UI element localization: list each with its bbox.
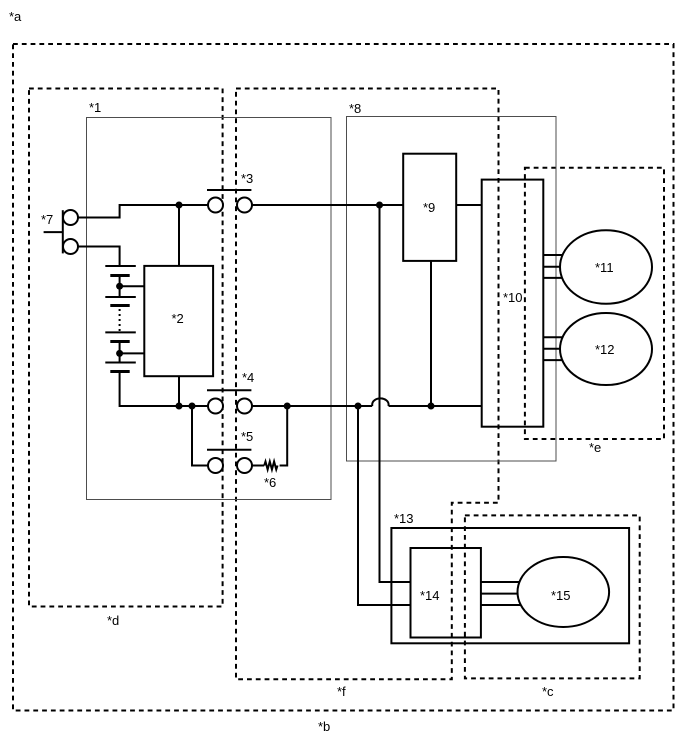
- wire: unit *14 to motor *15 (three leads): [481, 582, 522, 605]
- motor *15: [518, 557, 610, 627]
- box *14: [411, 548, 481, 638]
- node bottom rail at *9 branch: [428, 403, 435, 410]
- node bottom rail at box *2: [176, 403, 183, 410]
- svg-text:*c: *c: [542, 684, 554, 699]
- svg-text:*6: *6: [264, 475, 276, 490]
- wire: unit *10 to motor *11 (three leads): [543, 255, 566, 278]
- svg-text:*a: *a: [9, 9, 22, 24]
- connector *7: [44, 210, 78, 254]
- svg-text:*12: *12: [595, 342, 615, 357]
- box *9: [403, 154, 456, 261]
- svg-text:*d: *d: [107, 613, 119, 628]
- svg-text:*3: *3: [241, 171, 253, 186]
- wire hop over branch line: [372, 398, 388, 406]
- wire: box *2 bottom to bottom rail: [178, 376, 180, 406]
- svg-text:*e: *e: [589, 440, 601, 455]
- wire: bottom rail from hop to unit *10: [389, 405, 482, 407]
- svg-text:*15: *15: [551, 588, 571, 603]
- svg-text:*8: *8: [349, 101, 361, 116]
- switch *3: [207, 190, 252, 213]
- box *2 (control unit): [144, 266, 213, 376]
- node battery upper tap: [116, 283, 123, 290]
- dashed enclosure *f (stepped outline): [236, 89, 499, 680]
- svg-text:*13: *13: [394, 511, 414, 526]
- svg-text:*1: *1: [89, 100, 101, 115]
- wire: unit *9 to unit *10: [456, 204, 482, 206]
- thin box *1: [87, 118, 332, 500]
- wire: battery link lower with tap to *2: [120, 341, 145, 363]
- resistor *6: [264, 462, 277, 470]
- wire: switch *3 to unit *9: [252, 204, 403, 206]
- node on top rail at box *2 branch: [176, 202, 183, 209]
- svg-text:*7: *7: [41, 212, 53, 227]
- wire: switch *5 to resistor *6: [252, 465, 264, 467]
- node bottom rail at resistor branch: [284, 403, 291, 410]
- node battery lower tap: [116, 350, 123, 357]
- wire: bottom rail from switch *4 to hop: [252, 405, 372, 407]
- wire: bypass branch down to switch *5: [192, 406, 208, 466]
- wire: branch from bottom rail down to unit *14: [358, 406, 411, 605]
- svg-text:*9: *9: [423, 200, 435, 215]
- svg-text:*f: *f: [337, 684, 346, 699]
- switch *5: [207, 450, 252, 473]
- motor *12: [560, 313, 652, 385]
- motor *11: [560, 230, 652, 304]
- wire: resistor *6 up to bottom rail: [280, 406, 288, 466]
- wire: unit *9 bottom to bottom rail: [430, 261, 432, 406]
- switch *4: [207, 390, 252, 413]
- svg-text:*2: *2: [172, 311, 184, 326]
- box *10: [482, 180, 544, 427]
- thin box *8: [347, 117, 557, 462]
- node bottom rail at bypass branch: [189, 403, 196, 410]
- wire: connector *7 top contact to top rail: [78, 205, 208, 218]
- dashed enclosure *e: [525, 168, 664, 439]
- box *13: [391, 528, 629, 643]
- svg-text:*14: *14: [420, 588, 440, 603]
- wire: unit *10 to motor *12 (three leads): [543, 337, 566, 360]
- wire: branch down from top rail to unit *14: [380, 205, 411, 582]
- svg-text:*11: *11: [595, 260, 614, 275]
- node bottom rail at *14 branch: [355, 403, 362, 410]
- wire: connector *7 bottom contact to battery: [78, 247, 120, 267]
- node on top rail at *14 branch: [376, 202, 383, 209]
- wire: battery bottom to bottom rail: [120, 372, 208, 406]
- svg-text:*10: *10: [503, 290, 523, 305]
- dashed enclosure *c: [465, 515, 640, 678]
- wire: node at top rail down into box *2: [178, 205, 180, 266]
- svg-text:*4: *4: [242, 370, 254, 385]
- dashed enclosure *d: [29, 89, 223, 607]
- battery *2 cells: [105, 266, 136, 372]
- wire: battery link upper with tap to *2: [120, 276, 145, 297]
- wire: battery dotted continuation: [119, 309, 121, 331]
- svg-text:*b: *b: [318, 719, 330, 734]
- svg-text:*5: *5: [241, 429, 253, 444]
